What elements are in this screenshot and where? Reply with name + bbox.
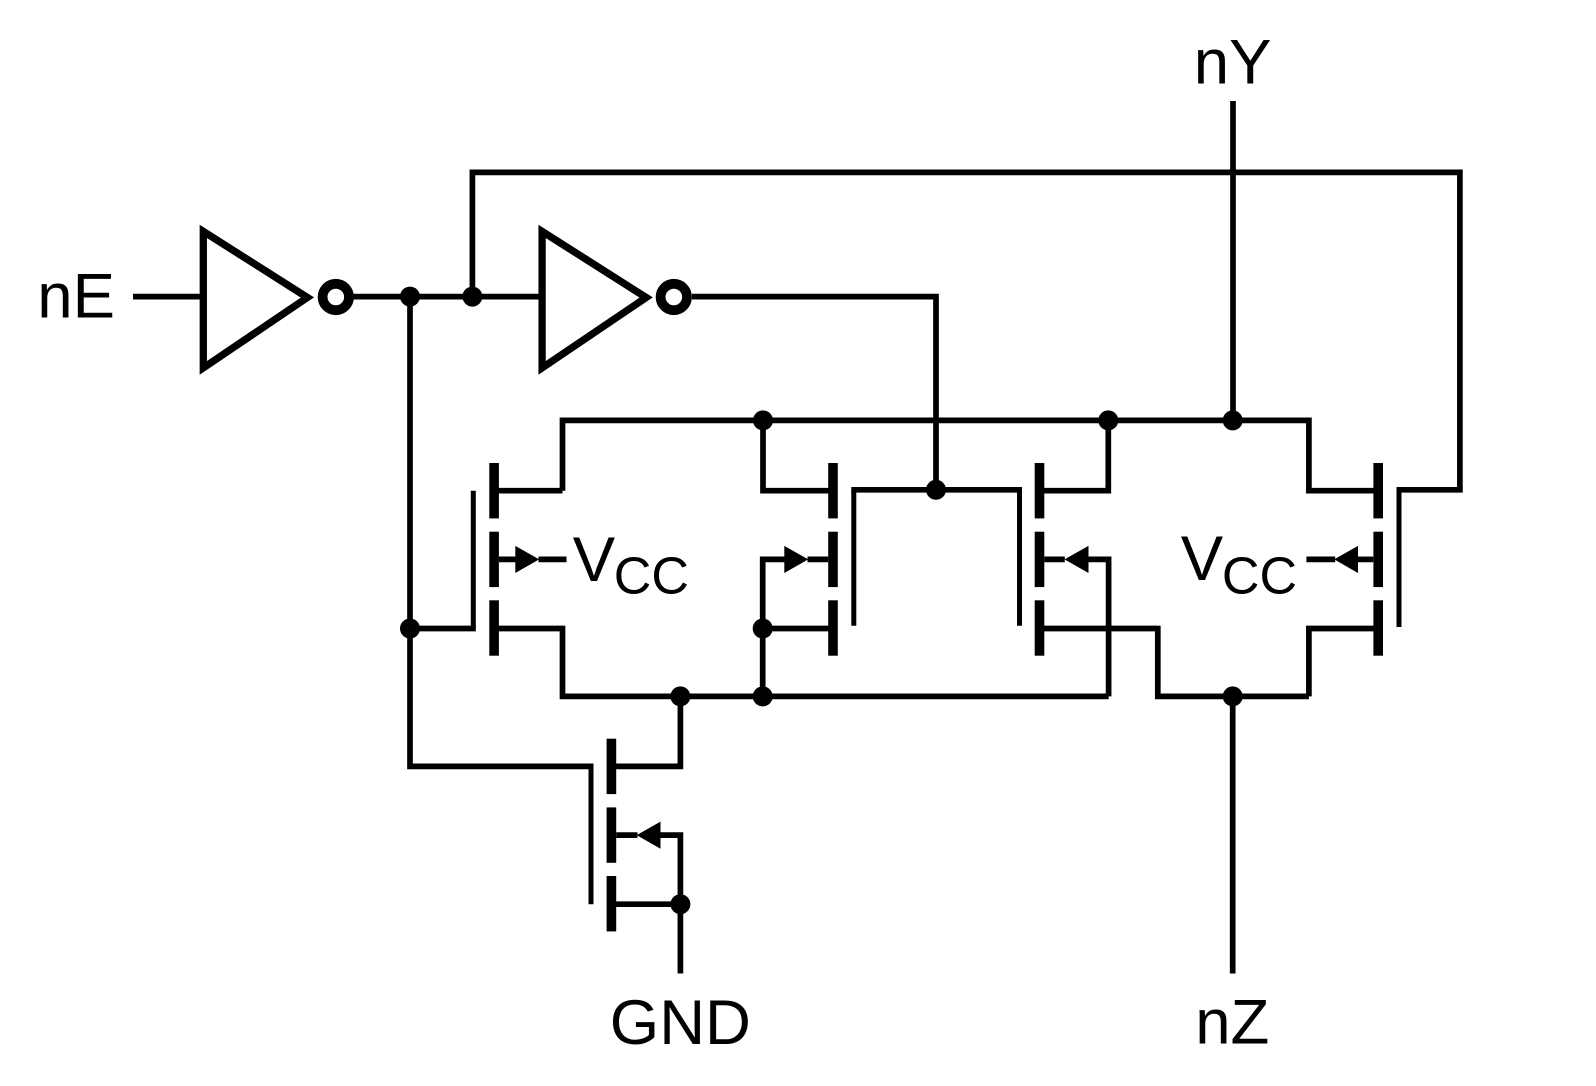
svg-text:nE: nE (37, 262, 115, 332)
svg-text:GND: GND (610, 988, 751, 1058)
svg-text:nY: nY (1194, 28, 1272, 98)
svg-text:CC: CC (614, 547, 689, 605)
svg-text:CC: CC (1222, 547, 1297, 605)
svg-text:V: V (1181, 524, 1224, 594)
svg-text:nZ: nZ (1195, 988, 1269, 1058)
svg-text:V: V (573, 525, 616, 595)
